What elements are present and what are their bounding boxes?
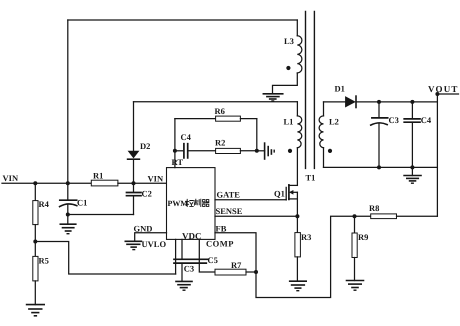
wire secondary top rail left xyxy=(324,101,346,103)
wire node B to ground xyxy=(257,150,265,152)
svg-text:C3: C3 xyxy=(389,115,399,125)
node junction C1 bottom xyxy=(66,213,70,217)
svg-text:PWM: PWM xyxy=(168,199,189,208)
node junction C4 top xyxy=(410,100,414,104)
Q1 drain lead xyxy=(289,184,298,186)
diode D1 xyxy=(335,83,357,107)
diode D2 xyxy=(128,141,151,159)
svg-text:VIN: VIN xyxy=(148,173,164,183)
Q1 channel bar xyxy=(288,185,290,200)
wire left loop vertical xyxy=(67,20,69,183)
wire VOUT stub xyxy=(437,93,458,95)
ground sideways at node B xyxy=(265,143,275,159)
wire right vertical to VOUT xyxy=(436,94,438,216)
svg-text:L3: L3 xyxy=(284,36,294,46)
svg-text:FB: FB xyxy=(216,223,227,233)
ground below L3 xyxy=(263,94,282,101)
svg-text:R9: R9 xyxy=(358,232,368,242)
resistor R5 xyxy=(33,256,49,305)
wire right vertical of R6 loop xyxy=(256,119,258,151)
wire left vertical of R6 loop xyxy=(174,119,176,151)
node junction VOUT xyxy=(435,92,439,96)
ground below R9 xyxy=(347,281,364,291)
capacitor C1 xyxy=(60,183,88,224)
wire node A to C4 xyxy=(175,150,184,152)
resistor R2 xyxy=(215,138,240,154)
svg-text:C3: C3 xyxy=(184,263,194,273)
svg-text:VIN: VIN xyxy=(3,173,19,183)
node junction C3 top xyxy=(377,100,381,104)
Q1 gate bar xyxy=(285,187,287,200)
capacitor C3 vdc lead xyxy=(181,239,183,259)
IC U1 PWM controller box xyxy=(167,168,216,240)
svg-text:GND: GND xyxy=(134,223,153,233)
pin GND wire xyxy=(135,233,167,242)
capacitor C3 plates xyxy=(174,259,208,273)
wire D2 column upper xyxy=(133,102,135,151)
svg-text:R1: R1 xyxy=(93,171,103,181)
resistor R8 xyxy=(369,203,397,219)
svg-text:R8: R8 xyxy=(369,203,379,213)
node junction divider xyxy=(33,240,37,244)
wire D2 to rail xyxy=(133,159,135,192)
resistor R9 xyxy=(352,216,368,280)
capacitor C4 output xyxy=(404,102,432,167)
wire R4-R5 link xyxy=(34,225,36,257)
pin COMP lead C5 xyxy=(199,239,215,272)
Q1 body arrow lead xyxy=(293,191,298,193)
svg-text:T1: T1 xyxy=(306,172,316,182)
Q1 source lead xyxy=(289,198,298,200)
svg-text:R7: R7 xyxy=(231,260,242,270)
wire VIN rail left xyxy=(2,182,91,184)
svg-text:R5: R5 xyxy=(39,256,49,266)
transistor Q1 xyxy=(274,185,297,200)
ground below C1 xyxy=(60,224,76,234)
wire C4 to R2 xyxy=(188,150,216,152)
ground below R3 xyxy=(290,281,307,291)
node junction ground bottom xyxy=(410,165,414,169)
resistor R3 xyxy=(295,232,311,281)
svg-text:R2: R2 xyxy=(215,138,225,148)
IC label CJK glyph kong xyxy=(186,199,194,206)
svg-text:R3: R3 xyxy=(301,232,311,242)
svg-text:SENSE: SENSE xyxy=(216,206,243,216)
node junction C3 bottom xyxy=(377,165,381,169)
ground below R5 xyxy=(27,305,45,316)
node junction C1 column xyxy=(66,181,70,185)
wire top rail xyxy=(68,19,297,21)
inductor L1 xyxy=(284,102,302,153)
inductor L3 xyxy=(273,20,302,94)
node junction R4 top xyxy=(33,181,37,185)
svg-text:C1: C1 xyxy=(77,198,87,208)
svg-text:Q1: Q1 xyxy=(274,188,285,198)
resistor R1 xyxy=(91,171,118,186)
wire GATE xyxy=(215,199,286,201)
wire VIN rail right xyxy=(118,182,167,184)
svg-text:C2: C2 xyxy=(142,189,152,199)
wire C3 to ground xyxy=(181,263,183,281)
wire L1 top rail xyxy=(134,101,298,103)
IC label CJK glyph qi xyxy=(203,200,209,207)
svg-text:D1: D1 xyxy=(335,83,345,93)
wire R8 to right vertical xyxy=(397,215,438,217)
node junction D2 column xyxy=(132,181,136,185)
svg-text:C4: C4 xyxy=(421,115,432,125)
ground output xyxy=(404,167,421,183)
capacitor C3 output xyxy=(371,102,399,167)
capacitor C2 xyxy=(127,189,152,215)
svg-text:D2: D2 xyxy=(140,141,150,151)
node junction R7 right xyxy=(254,270,258,274)
pin UVLO lead xyxy=(175,239,177,274)
wire secondary top rail right xyxy=(356,101,437,103)
wire C1 bottom to C2 bottom xyxy=(68,214,134,216)
IC label CJK glyph zhi xyxy=(194,199,201,206)
ground below C3 xyxy=(176,281,192,290)
resistor R4 xyxy=(33,183,50,224)
wire secondary bottom rail xyxy=(324,166,438,168)
wire R6 top right xyxy=(240,118,256,120)
wire R6 top left xyxy=(175,118,216,120)
svg-text:C4: C4 xyxy=(181,132,192,142)
pin RT wire xyxy=(174,151,176,168)
node B junction xyxy=(255,149,259,153)
wire source rail down xyxy=(296,192,298,232)
node junction SENSE xyxy=(295,214,299,218)
wire R2 to node B xyxy=(240,150,256,152)
wire SENSE xyxy=(215,215,297,217)
capacitor C4 timing xyxy=(181,132,192,158)
ground at GND pin xyxy=(125,241,141,249)
svg-text:GATE: GATE xyxy=(217,190,241,200)
svg-text:VDC: VDC xyxy=(182,231,202,241)
svg-text:UVLO: UVLO xyxy=(142,239,167,249)
resistor R6 xyxy=(215,106,241,121)
svg-text:VOUT: VOUT xyxy=(428,84,459,94)
inductor L2 xyxy=(319,102,339,167)
wire R7 right xyxy=(246,271,256,273)
resistor R7 xyxy=(215,260,246,275)
svg-text:COMP: COMP xyxy=(206,239,234,249)
node A junction xyxy=(173,149,177,153)
svg-text:C5: C5 xyxy=(208,255,218,265)
svg-text:R4: R4 xyxy=(39,199,50,209)
svg-text:L1: L1 xyxy=(284,116,294,126)
svg-text:RT: RT xyxy=(172,157,184,167)
wire drain rail up xyxy=(296,148,298,186)
transformer core xyxy=(306,12,316,183)
wire FB loop xyxy=(215,216,371,297)
svg-text:R6: R6 xyxy=(215,106,225,116)
node junction R9 top xyxy=(353,214,357,218)
wire divider to UVLO xyxy=(35,242,175,275)
svg-text:L2: L2 xyxy=(329,116,339,126)
